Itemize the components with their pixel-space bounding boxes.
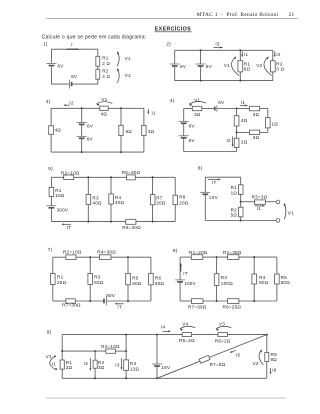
svg-text:R7=30Ω: R7=30Ω [62, 303, 81, 308]
resistor R5 2ohm (circuit 9) [179, 333, 195, 344]
svg-text:R2=35Ω: R2=35Ω [223, 250, 242, 255]
svg-text:R5=30Ω: R5=30Ω [122, 170, 141, 175]
svg-text:1): 1) [43, 42, 48, 48]
svg-text:R3: R3 [94, 275, 101, 280]
junction bottom R2 (circuit 9) [94, 377, 96, 379]
wire right lower (circuit 4) [267, 128, 269, 132]
label 5) [48, 166, 53, 172]
resistor R1 3ohm (circuit 9) [60, 360, 73, 370]
svg-text:40Ω: 40Ω [115, 200, 125, 205]
current arrow I6 (circuit 9) [270, 367, 277, 374]
svg-text:3Ω: 3Ω [253, 135, 260, 140]
current arrow I (circuit 1) [66, 42, 79, 50]
svg-text:I1: I1 [152, 111, 157, 116]
svg-text:6V: 6V [189, 124, 196, 129]
svg-text:3): 3) [46, 99, 51, 105]
svg-text:I6: I6 [272, 367, 277, 372]
wire right lower (circuit 1) [97, 79, 99, 84]
svg-text:4 Ω: 4 Ω [102, 74, 110, 79]
wire top right b (circuit 4) [260, 108, 268, 110]
voltage arrow V1 (circuit 3) [96, 97, 112, 106]
wire bottom right (circuit 1) [72, 83, 98, 85]
resistor R7 30ohm (circuit 7) [62, 299, 81, 308]
wire node to R3 (circuit 6) [241, 201, 255, 203]
resistor R2 5ohm (circuit 6) [231, 207, 243, 217]
wire bottom (circuit 4) [184, 151, 237, 153]
wire bottom (circuit 9) [62, 377, 267, 379]
svg-text:60Ω: 60Ω [155, 281, 165, 286]
battery B2 6V (circuit 3) [77, 136, 94, 141]
current arrow IT (circuit 5) [61, 223, 71, 230]
resistor R7 8ohm diagonal (circuit 9) [199, 355, 226, 366]
wire top (circuit 6) [205, 176, 240, 178]
wire branch R3 (circuit 5) [87, 177, 89, 221]
wire diagonal seg2 (circuit 9) [209, 335, 266, 358]
voltage arrow V1 (circuit 6) [284, 203, 294, 219]
wire top seg2 (circuit 7) [76, 256, 99, 258]
svg-text:9): 9) [47, 330, 52, 336]
svg-text:6Ω: 6Ω [126, 129, 133, 134]
junction bottom R1 branch (circuit 2) [239, 80, 241, 82]
wire left upper (circuit 5) [50, 177, 52, 187]
wire R3 branch lower (circuit 9) [125, 351, 127, 378]
junction second R2 (circuit 9) [94, 350, 96, 352]
wire left lower (circuit 5) [50, 208, 52, 222]
battery 300V (circuit 5) [46, 206, 69, 213]
wire left (circuit 7) [52, 257, 54, 301]
wire branch R4 (circuit 8) [253, 257, 255, 301]
wire right (circuit 7) [150, 257, 152, 301]
current arrow I2 (circuit 4) [227, 137, 234, 148]
battery 6V top (circuit 4) [215, 100, 225, 112]
current arrow I1 (circuit 3) [147, 109, 156, 116]
wire top left (circuit 3) [51, 107, 100, 109]
current arc I1 (circuit 9) [50, 355, 58, 370]
wire R3 to terminal (circuit 6) [266, 201, 277, 203]
wire R2 branch (circuit 9) [94, 351, 96, 378]
svg-text:R3: R3 [92, 195, 99, 200]
svg-text:V2: V2 [253, 361, 259, 366]
resistor R1 20ohm (circuit 7) [51, 274, 67, 286]
junction bottom R3 (circuit 9) [125, 377, 127, 379]
wire top mid (circuit 4) [202, 108, 215, 110]
junction top 16V branch (circuit 9) [156, 334, 158, 336]
junction top R3 (circuit 5) [87, 176, 89, 178]
wire branch R3 (circuit 8) [216, 257, 218, 301]
wire top seg2 (circuit 9) [157, 334, 182, 336]
resistor R2 3ohm (circuit 9) [93, 360, 105, 370]
junction second R3 (circuit 9) [125, 350, 127, 352]
current arrow I1 (circuit 4) [240, 100, 247, 106]
resistor R2 10ohm (circuit 5) [61, 171, 80, 180]
svg-text:I2: I2 [276, 52, 281, 57]
header text MTAC 1 - Prof. Renato Bolsoni [197, 11, 279, 18]
battery 16V (circuit 9) [152, 364, 171, 370]
svg-text:IT: IT [212, 180, 217, 185]
svg-text:I2: I2 [84, 361, 89, 366]
svg-text:V1: V1 [288, 211, 294, 216]
wire branch 4ohm (circuit 4) [236, 109, 238, 133]
resistor R8 20ohm (circuit 5) [173, 195, 189, 206]
junction top R4 (circuit 8) [253, 256, 255, 258]
current arrow I3 (circuit 2) [214, 41, 223, 48]
svg-text:I1: I1 [241, 100, 246, 105]
svg-text:80V: 80V [106, 293, 116, 298]
wire top left (circuit 4) [184, 108, 193, 110]
wire R3 branch upper (circuit 9) [125, 335, 127, 352]
wire branch 2ohm (circuit 4) [236, 132, 238, 151]
resistor R1 6ohm (circuit 2) [238, 61, 251, 72]
wire top seg1 (circuit 5) [51, 176, 63, 178]
svg-text:R6=2Ω: R6=2Ω [215, 338, 231, 343]
wire right upper (circuit 4) [267, 109, 269, 118]
svg-text:2): 2) [166, 42, 171, 48]
resistor R6 25ohm (circuit 8) [223, 299, 242, 310]
voltage arrow V4 (circuit 9) [180, 321, 195, 331]
resistor 1ohm (circuit 4) [265, 118, 278, 128]
voltage arrow V2 (circuit 1) [117, 68, 131, 83]
svg-text:EXERCÍCIOS: EXERCÍCIOS [155, 25, 191, 33]
svg-text:5Ω: 5Ω [231, 212, 238, 217]
wire mid-right horizontal (circuit 4) [260, 131, 268, 133]
svg-text:V1: V1 [224, 63, 230, 68]
wire right upper (circuit 1) [97, 49, 99, 56]
svg-text:IT: IT [67, 225, 72, 230]
svg-text:60Ω: 60Ω [94, 280, 104, 285]
current arrow I1 (circuit 6) [255, 205, 265, 211]
svg-text:5): 5) [48, 166, 53, 172]
wire bottom seg2 (circuit 7) [75, 300, 104, 302]
wire top seg2 (circuit 5) [74, 176, 127, 178]
wire left lower (circuit 6) [204, 195, 206, 221]
resistor R1 2ohm (circuit 1) [96, 56, 111, 66]
svg-text:R2=10Ω: R2=10Ω [63, 250, 82, 255]
junction top R1 branch (circuit 2) [239, 49, 241, 51]
svg-text:I4: I4 [161, 325, 166, 330]
resistor R3 40ohm (circuit 5) [86, 194, 102, 205]
battery B1 6V (circuit 1) [47, 63, 65, 68]
wire top seg1 (circuit 7) [53, 256, 66, 258]
current arrow I1 (circuit 2) [241, 51, 248, 57]
wire right / branch R2 (circuit 2) [272, 50, 274, 80]
wire left (circuit 3) [50, 108, 52, 152]
title EXERCICIOS [155, 25, 192, 33]
svg-text:R4=10Ω: R4=10Ω [101, 344, 120, 349]
wire branch R1 (circuit 2) [239, 50, 241, 80]
svg-text:20Ω: 20Ω [156, 201, 166, 206]
svg-text:R4: R4 [115, 195, 122, 200]
svg-text:300V: 300V [57, 207, 69, 212]
svg-text:R7=8Ω: R7=8Ω [210, 362, 226, 367]
junction top R3 branch (circuit 9) [125, 334, 127, 336]
current arrow IT (circuit 7) [115, 303, 124, 309]
svg-text:8Ω: 8Ω [271, 357, 278, 362]
svg-text:R6: R6 [155, 275, 162, 280]
resistor 2ohm (circuit 4) [234, 138, 247, 147]
junction bottom (circuit 6) [240, 220, 242, 222]
svg-text:7): 7) [48, 247, 53, 253]
wire branch battery B2 (circuit 2) [200, 50, 202, 80]
svg-text:R8: R8 [179, 195, 186, 200]
current arrow I2 (circuit 9) [84, 358, 91, 371]
battery B1 6V (circuit 3) [77, 122, 94, 128]
resistor 3ohm top-right (circuit 4) [249, 106, 259, 117]
svg-text:R2=10Ω: R2=10Ω [61, 171, 80, 176]
resistor 6ohm (circuit 3) [119, 125, 133, 135]
junction bottom 16V (circuit 9) [156, 377, 158, 379]
label 1) [43, 42, 48, 48]
junction top R3 (circuit 7) [89, 256, 91, 258]
svg-text:100Ω: 100Ω [221, 281, 233, 286]
svg-text:I1: I1 [257, 206, 262, 211]
wire right upper (circuit 5) [174, 177, 176, 195]
svg-text:I5: I5 [236, 352, 241, 357]
resistor 4ohm top (circuit 3) [100, 106, 108, 116]
wire bottom seg1 (circuit 7) [53, 300, 66, 302]
svg-text:6V: 6V [58, 63, 65, 68]
svg-text:4Ω: 4Ω [55, 128, 62, 133]
svg-text:8): 8) [173, 248, 178, 254]
wire left mid (circuit 5) [50, 196, 52, 205]
svg-text:Calcule o que se pede em cada: Calcule o que se pede em cada diagrama: [42, 35, 147, 41]
resistor R5 30ohm (circuit 5) [122, 170, 141, 180]
wire right mid (circuit 1) [97, 66, 99, 69]
resistor R3 12ohm (circuit 9) [124, 360, 140, 371]
current arrow IT (circuit 6) [208, 178, 221, 185]
svg-text:6V: 6V [71, 74, 78, 79]
resistor R7 30ohm (circuit 8) [188, 299, 207, 310]
junction bottom R4 (circuit 5) [110, 221, 112, 223]
resistor R3 60ohm (circuit 7) [88, 274, 104, 286]
junction node mid (circuit 6) [240, 201, 242, 203]
battery 100V (circuit 8) [175, 280, 197, 286]
svg-text:R7=30Ω: R7=30Ω [188, 305, 207, 310]
svg-text:I3: I3 [215, 41, 220, 46]
label 8) [173, 248, 178, 254]
battery 10V (circuit 6) [200, 192, 218, 200]
wire bottom seg1 (circuit 5) [51, 221, 125, 223]
wire top seg4 (circuit 9) [227, 334, 266, 336]
voltage arrow V3 (circuit 9) [216, 321, 231, 331]
resistor R2 10ohm (circuit 7) [63, 250, 82, 260]
svg-text:R3: R3 [130, 361, 137, 366]
wire top seg1 (circuit 9) [62, 334, 157, 336]
svg-text:4Ω: 4Ω [101, 111, 108, 116]
junction top R3 (circuit 8) [216, 256, 218, 258]
voltage arrow V1 (circuit 2) [224, 57, 239, 76]
wire top mid2 (circuit 4) [217, 108, 237, 110]
svg-text:6V: 6V [206, 64, 213, 69]
wire bottom left (circuit 1) [52, 83, 70, 85]
wire second seg2 (circuit 9) [116, 350, 127, 352]
resistor R1 10ohm (circuit 5) [49, 187, 65, 198]
svg-text:16V: 16V [161, 365, 171, 370]
svg-text:V2: V2 [256, 63, 262, 68]
wire left (circuit 1) [51, 49, 53, 84]
battery B2 6V (circuit 4) [179, 136, 196, 143]
svg-text:80Ω: 80Ω [281, 280, 291, 285]
instruction line [42, 35, 147, 41]
resistor 4ohm (circuit 4) [234, 116, 247, 126]
resistor R7 20ohm (circuit 5) [150, 195, 165, 206]
junction bottom R5 (circuit 7) [127, 300, 129, 302]
wire second seg1 (circuit 9) [62, 350, 106, 352]
junction top R4 (circuit 5) [110, 176, 112, 178]
wire left (circuit 4) [183, 109, 185, 152]
resistor R6 2ohm (circuit 9) [215, 333, 231, 344]
wire top (circuit 1) [52, 48, 98, 50]
wire R2 to bottom (circuit 6) [240, 217, 242, 221]
junction node A (circuit 4) [236, 108, 238, 110]
battery B2 6V (circuit 2) [196, 64, 213, 69]
wire right lower (circuit 9) [266, 362, 268, 379]
current arrow I3 (circuit 9) [115, 358, 122, 370]
svg-text:3Ω: 3Ω [194, 112, 201, 117]
junction top R7 (circuit 5) [152, 176, 154, 178]
svg-text:20Ω: 20Ω [57, 280, 67, 285]
resistor R4 80ohm (circuit 8) [252, 274, 269, 285]
svg-text:R1=20Ω: R1=20Ω [189, 250, 208, 255]
resistor 4ohm left (circuit 3) [49, 126, 62, 135]
wire branch batteries (circuit 3) [81, 108, 83, 152]
junction top right corner (circuit 9) [266, 334, 268, 336]
svg-text:4): 4) [170, 98, 175, 104]
battery B1 6V (circuit 4) [179, 121, 196, 128]
label 2) [166, 42, 171, 48]
wire left upper (circuit 8) [179, 257, 181, 280]
wire bottom (circuit 6) [205, 220, 276, 222]
svg-text:3Ω: 3Ω [148, 129, 155, 134]
svg-text:R4=30Ω: R4=30Ω [97, 250, 116, 255]
resistor R3 100ohm (circuit 8) [214, 274, 233, 286]
junction top battery B2 (circuit 2) [200, 49, 202, 51]
svg-text:3Ω: 3Ω [66, 365, 73, 370]
label 6) [198, 166, 203, 172]
wire right (circuit 3) [143, 108, 145, 152]
resistor R5 60ohm (circuit 7) [126, 273, 142, 286]
junction bottom 6ohm branch (circuit 3) [120, 151, 122, 153]
junction bottom R3 (circuit 8) [216, 300, 218, 302]
svg-text:IT: IT [117, 304, 122, 309]
svg-text:40Ω: 40Ω [92, 201, 102, 206]
resistor R6 30ohm (circuit 5) [122, 219, 141, 230]
svg-text:I2: I2 [69, 100, 74, 105]
svg-text:MTAC 1 - Prof. Renato Bolson: MTAC 1 - Prof. Renato Bolsoni [197, 11, 279, 18]
wire branch 6ohm (circuit 3) [120, 108, 122, 152]
wire bottom seg2 (circuit 5) [136, 221, 175, 223]
wire diagonal seg1 (circuit 9) [157, 361, 200, 378]
svg-text:I: I [71, 42, 73, 47]
wire top seg1 (circuit 8) [180, 256, 191, 258]
svg-text:3 Ω: 3 Ω [276, 67, 284, 72]
wire branch R7 (circuit 5) [152, 177, 154, 221]
svg-text:6): 6) [198, 166, 203, 172]
label 7) [48, 247, 53, 253]
resistor R5 80ohm (circuit 8) [275, 274, 291, 285]
svg-text:60Ω: 60Ω [132, 281, 142, 286]
svg-text:2Ω: 2Ω [241, 140, 248, 145]
svg-text:6V: 6V [180, 64, 187, 69]
resistor R6 60ohm (circuit 7) [149, 273, 165, 286]
label 3) [46, 99, 51, 105]
wire top seg3 (circuit 7) [111, 256, 151, 258]
svg-text:R1: R1 [102, 56, 109, 61]
svg-text:6V: 6V [218, 100, 225, 105]
voltage label V1 (circuit 9) [46, 354, 52, 359]
resistor R8 8ohm (circuit 9) [265, 352, 278, 362]
wire branch R3 (circuit 7) [89, 257, 91, 301]
resistor R2 35ohm (circuit 8) [223, 250, 242, 260]
wire branch R1 (circuit 6) [240, 177, 242, 185]
wire right (circuit 8) [276, 257, 278, 301]
junction node B (circuit 4) [236, 131, 238, 133]
current arrow I2 (circuit 3) [63, 100, 74, 106]
svg-text:V3: V3 [219, 321, 225, 326]
junction bottom battery branch (circuit 3) [81, 151, 83, 153]
wire top right (circuit 3) [108, 107, 144, 109]
svg-text:V2: V2 [125, 73, 131, 78]
svg-text:I2: I2 [227, 138, 232, 143]
wire left (circuit 9) [61, 335, 63, 379]
svg-text:R3=3Ω: R3=3Ω [252, 195, 268, 200]
wire bottom (circuit 3) [51, 151, 144, 153]
junction top 6ohm branch (circuit 3) [120, 107, 122, 109]
svg-text:R2: R2 [102, 69, 109, 74]
resistor 3ohm mid (circuit 4) [249, 130, 259, 140]
wire R1 to node (circuit 6) [240, 194, 242, 201]
voltage arrow V2 (circuit 9) [253, 350, 264, 366]
junction bottom R3 (circuit 7) [89, 300, 91, 302]
svg-text:6Ω: 6Ω [244, 67, 251, 72]
wire 16V branch (circuit 9) [156, 335, 158, 379]
current arrow I5 (circuit 9) [230, 350, 241, 357]
svg-text:IT: IT [183, 271, 188, 276]
junction bottom R4 (circuit 8) [253, 300, 255, 302]
resistor R1 1ohm (circuit 6) [231, 185, 243, 196]
svg-text:V1: V1 [125, 56, 131, 61]
wire mid-left horizontal (circuit 4) [237, 131, 250, 133]
resistor R4 30ohm (circuit 7) [97, 250, 116, 260]
wire branch R5 (circuit 7) [127, 257, 129, 301]
wire top seg2 (circuit 8) [203, 256, 228, 258]
svg-text:I3: I3 [115, 362, 120, 367]
terminal top (circuit 6) [276, 200, 280, 204]
svg-text:R6=30Ω: R6=30Ω [122, 225, 141, 230]
label 9) [47, 330, 52, 336]
junction bottom R3 (circuit 5) [87, 221, 89, 223]
svg-text:R5=2Ω: R5=2Ω [179, 338, 195, 343]
resistor 3ohm top-left (circuit 4) [192, 106, 202, 117]
svg-text:V1: V1 [46, 354, 52, 359]
battery 80V (circuit 7) [104, 293, 116, 305]
svg-text:4Ω: 4Ω [241, 118, 248, 123]
wire right lower (circuit 5) [174, 205, 176, 222]
svg-text:V4: V4 [182, 321, 188, 326]
wire bottom seg2 (circuit 8) [203, 300, 228, 302]
wire node to R2 (circuit 6) [240, 202, 242, 208]
resistor R2 4ohm (circuit 1) [96, 69, 111, 80]
wire top seg3 (circuit 9) [192, 334, 219, 336]
wire bottom (circuit 2) [175, 80, 273, 82]
resistor R4 10ohm (circuit 9) [101, 344, 120, 353]
battery B2 6V (circuit 1) [69, 74, 78, 88]
svg-text:I1: I1 [244, 52, 249, 57]
svg-text:10Ω: 10Ω [55, 193, 65, 198]
resistor R1 20ohm (circuit 8) [189, 250, 208, 260]
voltage arrow V1 (circuit 1) [117, 52, 131, 67]
wire top seg3 (circuit 5) [135, 176, 175, 178]
svg-text:3Ω: 3Ω [98, 365, 105, 370]
